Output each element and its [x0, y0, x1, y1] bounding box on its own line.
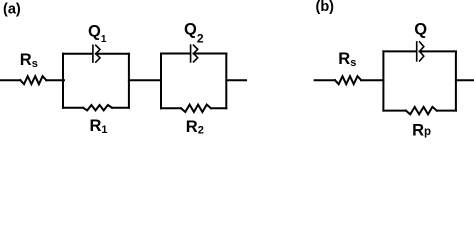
- svg-text:(b): (b): [316, 0, 335, 15]
- wire box-b left side: [382, 51, 384, 110]
- wire box1 bottom-right segment: [112, 107, 129, 109]
- svg-text:Rs: Rs: [20, 51, 38, 70]
- capacitor-CPE Q2: [191, 45, 198, 62]
- capacitor-CPE Q (b): [417, 42, 424, 61]
- wire output lead (a): [226, 79, 246, 81]
- wire Rs to box1: [46, 79, 64, 81]
- wire box-b top-left segment: [383, 50, 415, 52]
- wire box1 right side: [128, 54, 130, 108]
- resistor Rs (a): [20, 76, 46, 84]
- svg-text:Rp: Rp: [412, 122, 431, 138]
- wire box-b bottom-right segment: [437, 110, 456, 112]
- wire box-b top-right segment: [420, 50, 456, 52]
- svg-text:Q2: Q2: [184, 21, 204, 46]
- wire input lead (a): [0, 79, 20, 81]
- wire box2 bottom-right segment: [211, 107, 226, 109]
- wire box2 bottom-left segment: [161, 107, 181, 109]
- wire box2 top-right segment: [194, 53, 227, 55]
- wire box1 left side: [62, 54, 64, 108]
- wire box2 top-left segment: [161, 53, 190, 55]
- wire box1 bottom-left segment: [63, 107, 83, 109]
- wire box1 to box2: [129, 79, 161, 81]
- wire output lead (b): [456, 79, 474, 81]
- resistor Rp: [406, 107, 437, 114]
- svg-text:(a): (a): [3, 2, 21, 18]
- svg-text:R1: R1: [90, 117, 108, 136]
- wire Rs to box (b): [361, 79, 383, 81]
- svg-text:Q1: Q1: [88, 23, 107, 46]
- wire input lead (b): [315, 79, 335, 81]
- resistor Rs (b): [335, 76, 361, 84]
- wire box1 top-right segment: [96, 53, 129, 55]
- svg-text:R2: R2: [186, 118, 204, 136]
- wire box2 left side: [160, 54, 162, 109]
- svg-text:Rs: Rs: [338, 50, 356, 69]
- capacitor-CPE Q1: [93, 45, 100, 62]
- wire box1 top-left segment: [63, 53, 92, 55]
- wire box-b right side: [455, 51, 457, 110]
- wire box2 right side: [225, 54, 227, 109]
- svg-text:Q: Q: [414, 20, 427, 38]
- resistor R2: [181, 105, 211, 112]
- wire box-b bottom-left segment: [383, 110, 406, 112]
- resistor R1: [83, 105, 112, 110]
